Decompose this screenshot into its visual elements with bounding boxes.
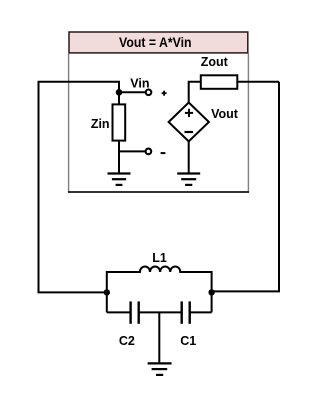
svg-text:Vout = A*Vin: Vout = A*Vin bbox=[119, 35, 192, 50]
svg-text:C1: C1 bbox=[180, 334, 196, 348]
svg-text:Vout: Vout bbox=[211, 107, 239, 121]
svg-text:Zin: Zin bbox=[91, 117, 110, 131]
svg-text:L1: L1 bbox=[152, 251, 167, 265]
svg-text:C2: C2 bbox=[119, 334, 135, 348]
svg-text:Zout: Zout bbox=[201, 55, 229, 69]
svg-text:Vin: Vin bbox=[130, 77, 149, 91]
